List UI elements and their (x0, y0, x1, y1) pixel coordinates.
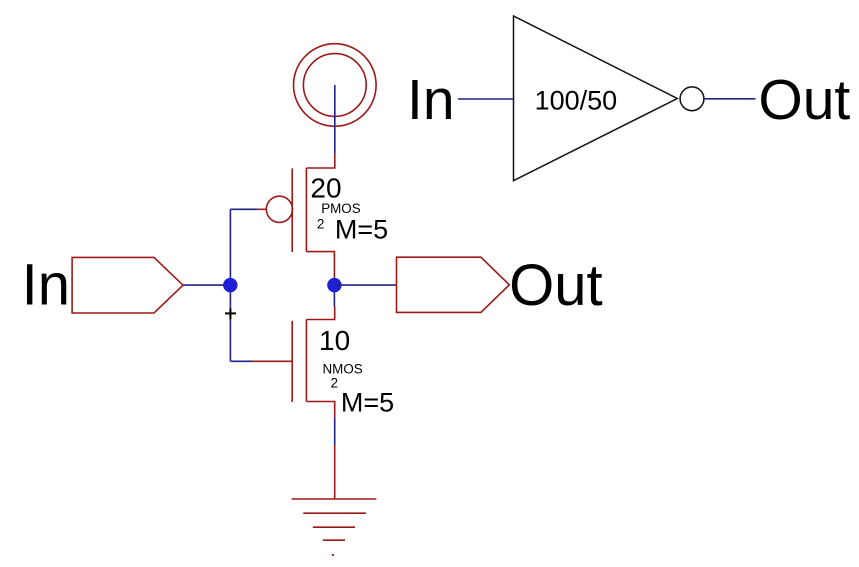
ground (292, 445, 377, 540)
svg-text:NMOS: NMOS (323, 361, 363, 376)
wire node to Out port (334, 284, 396, 286)
svg-text:M=5: M=5 (341, 388, 394, 418)
wire VDD to PMOS drain (334, 85, 336, 154)
wire bubble to Out (704, 98, 756, 100)
wire input trunk (229, 209, 231, 361)
wire NMOS gate lead (230, 360, 252, 362)
svg-text:In: In (22, 253, 70, 318)
svg-text:M=5: M=5 (335, 215, 388, 245)
svg-text:In: In (407, 68, 455, 132)
ground text anchor dot (332, 554, 334, 556)
node In junction (223, 278, 237, 292)
port Out (397, 257, 510, 312)
svg-text:2: 2 (331, 376, 339, 391)
svg-text:20: 20 (310, 173, 341, 204)
svg-text:10: 10 (319, 325, 350, 356)
svg-text:2: 2 (317, 217, 325, 232)
transistor M2 NMOS (252, 307, 335, 418)
wire In to inverter (458, 98, 514, 100)
wire NMOS source to ground (334, 418, 336, 446)
power symbol VDD (294, 44, 377, 127)
svg-text:Out: Out (758, 68, 850, 132)
cell center marker (225, 308, 236, 319)
transistor M1 PMOS (257, 154, 335, 279)
wire PMOS gate lead (230, 208, 257, 210)
wire PMOS source to node Out (333, 279, 335, 307)
svg-text:Out: Out (509, 253, 602, 318)
port In (72, 257, 183, 313)
op-amp style inverter U1 (514, 16, 678, 181)
inverter output bubble (680, 87, 704, 111)
svg-text:100/50: 100/50 (535, 85, 618, 115)
wire In port to node (183, 284, 230, 286)
node Out junction (327, 278, 341, 292)
